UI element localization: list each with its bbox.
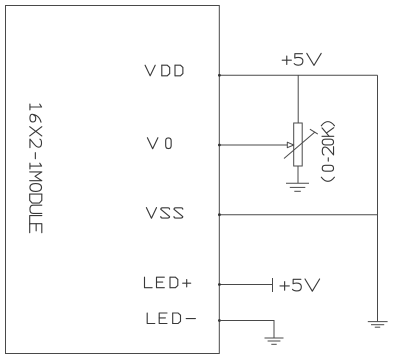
ground (LED-) — [265, 338, 284, 344]
wire LED- pin to ground — [219, 321, 274, 338]
wire right rail down to ground — [377, 75, 379, 321]
wiper arrowhead — [287, 142, 293, 148]
ground (below potentiometer) — [286, 183, 309, 191]
junction dot LED- at module edge — [218, 319, 221, 322]
wire VDD pin to +5V rail — [219, 74, 377, 76]
junction dot VDD at module edge — [218, 74, 221, 77]
pin label VSS — [146, 208, 182, 219]
wire VSS pin to right rail — [219, 214, 377, 216]
power label +5V (LED+) — [280, 279, 320, 291]
pin label VDD — [145, 65, 183, 76]
ground (right rail) — [368, 322, 388, 328]
value label (0-20K) — [321, 122, 334, 182]
junction dot VSS at module edge — [218, 213, 221, 216]
pin label V0 — [147, 138, 171, 149]
junction dot LED+ at module edge — [218, 283, 221, 286]
power label +5V (top) — [282, 53, 321, 65]
pin label LED+ — [145, 277, 191, 288]
module label 16X2 -1MODULE — [30, 104, 42, 233]
potentiometer RV1 adjust diagonal — [284, 132, 315, 159]
wire potentiometer bottom to ground — [297, 166, 299, 183]
+5V terminal bar — [272, 278, 274, 292]
potentiometer RV1 body — [294, 123, 303, 166]
potentiometer RV1 T-bar — [310, 129, 318, 134]
wire +5V stub down to potentiometer top — [297, 75, 299, 123]
wire V0 pin to wiper arrow — [219, 144, 287, 146]
junction dot V0 at module edge — [218, 144, 221, 147]
module box (16x2 LCD module outline) — [6, 6, 220, 354]
wire LED+ pin to +5V terminal — [219, 284, 272, 286]
pin label LED- — [147, 313, 195, 324]
